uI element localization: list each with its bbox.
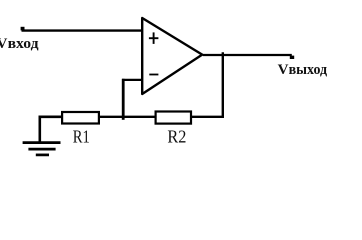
wire: R2 to output vertical [191, 116, 225, 118]
svg-text:R2: R2 [167, 127, 186, 147]
svg-text:вход: вход [8, 36, 39, 52]
label R2 [167, 127, 186, 147]
wire: inverting input stub [122, 79, 142, 81]
svg-text:V: V [0, 36, 8, 52]
wire: non-inverting input from Vвход to op-amp + pin [21, 27, 143, 31]
wire: ground corner to R1 left [40, 117, 62, 142]
ground [23, 143, 61, 155]
node Vвыход label [278, 62, 328, 78]
op-amp U1 [142, 18, 202, 94]
op-amp + input marking [149, 32, 159, 44]
wire: feedback vertical from − input down to R1/R2 node [122, 79, 125, 120]
wire: R1 to R2 (feedback node) [99, 116, 155, 118]
label R1 [73, 127, 90, 147]
node Vвход label [0, 36, 39, 52]
resistor R1 [62, 112, 99, 124]
svg-text:V: V [278, 62, 289, 78]
wire: output from op-amp to Vвыход [203, 55, 294, 59]
resistor R2 [156, 112, 191, 124]
svg-text:R1: R1 [73, 127, 90, 147]
svg-text:выход: выход [289, 62, 328, 78]
op-amp − input marking [149, 74, 158, 76]
wire: output node down to R2 [222, 52, 224, 118]
